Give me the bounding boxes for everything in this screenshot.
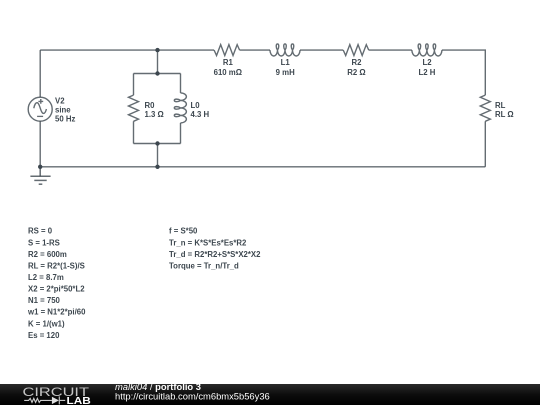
svg-text:L2 H: L2 H <box>419 68 436 77</box>
junction node ground <box>38 165 42 169</box>
wire L1 to R2 <box>300 49 343 51</box>
label R2 <box>347 58 365 77</box>
svg-text:V2: V2 <box>55 96 65 105</box>
svg-text:RS = 0: RS = 0 <box>28 227 53 236</box>
svg-text:RL = R2*(1-S)/S: RL = R2*(1-S)/S <box>28 261 85 270</box>
svg-text:R2 = 600m: R2 = 600m <box>28 250 67 259</box>
wire V2 bottom to ground node <box>39 121 41 167</box>
wire R1 to L1 <box>240 49 270 51</box>
wire R2 to L2 <box>369 49 412 51</box>
svg-text:50 Hz: 50 Hz <box>55 114 75 123</box>
svg-text:K = 1/(w1): K = 1/(w1) <box>28 319 65 328</box>
V2 minus sign <box>37 115 43 117</box>
label L2 <box>419 58 436 77</box>
svg-text:R2: R2 <box>352 58 363 67</box>
wire center stem top <box>157 50 159 73</box>
svg-text:S = 1-RS: S = 1-RS <box>28 238 60 247</box>
svg-text:X2 = 2*pi*50*L2: X2 = 2*pi*50*L2 <box>28 285 85 294</box>
svg-text:R2 Ω: R2 Ω <box>347 68 365 77</box>
equations left column <box>27 227 86 340</box>
label RL <box>495 101 514 119</box>
wire R0 bottom lead <box>133 121 135 143</box>
wire parallel block top rail <box>134 73 181 75</box>
resistor R0 <box>129 95 139 121</box>
resistor R1 <box>214 45 240 56</box>
logo diode triangle <box>52 397 59 404</box>
wire top bus left corner to R1 <box>40 49 214 51</box>
svg-text:L1: L1 <box>281 58 291 67</box>
svg-text:f = S*50: f = S*50 <box>169 227 198 236</box>
svg-text:Es = 120: Es = 120 <box>28 331 60 340</box>
wire L0 bottom lead <box>180 123 182 144</box>
junction node bottom bus center <box>155 165 159 169</box>
equations right column <box>169 227 261 271</box>
svg-text:LAB: LAB <box>67 396 91 405</box>
svg-text:sine: sine <box>55 105 71 114</box>
svg-text:L0: L0 <box>191 101 201 110</box>
svg-text:Tr_d = R2*R2+S*S*X2*X2: Tr_d = R2*R2+S*S*X2*X2 <box>169 250 261 259</box>
svg-text:http://circuitlab.com/cm6bmx5b: http://circuitlab.com/cm6bmx5b56y36 <box>115 391 270 402</box>
svg-text:RL: RL <box>495 101 506 110</box>
logo resistor zigzag and wire <box>24 396 65 404</box>
junction node block top <box>155 71 159 75</box>
svg-text:R1: R1 <box>223 58 234 67</box>
svg-text:RL Ω: RL Ω <box>495 110 514 119</box>
svg-text:1.3 Ω: 1.3 Ω <box>145 110 164 119</box>
junction node block bottom <box>155 141 159 145</box>
wire center stem bottom <box>157 144 159 167</box>
inductor L0 <box>174 93 186 123</box>
footer bar <box>0 384 540 405</box>
label L1 <box>276 58 295 77</box>
svg-text:L2: L2 <box>422 58 432 67</box>
junction node at top wire <box>155 48 159 52</box>
wire parallel block bottom rail <box>134 143 181 145</box>
label L0 <box>191 101 210 119</box>
svg-text:L2 = 8.7m: L2 = 8.7m <box>28 273 64 282</box>
svg-text:R0: R0 <box>145 101 156 110</box>
wire bottom bus <box>40 166 485 168</box>
svg-text:w1 = N1*2*pi/60: w1 = N1*2*pi/60 <box>27 308 86 317</box>
svg-text:Torque = Tr_n/Tr_d: Torque = Tr_n/Tr_d <box>169 261 239 270</box>
voltage source V2 circle <box>28 97 52 121</box>
wire L2 to top-right corner down to RL <box>442 50 485 95</box>
svg-text:9 mH: 9 mH <box>276 68 295 77</box>
wire L0 top lead <box>180 74 182 93</box>
svg-text:4.3 H: 4.3 H <box>191 110 210 119</box>
label V2 <box>55 96 75 123</box>
svg-text:610 mΩ: 610 mΩ <box>214 68 242 77</box>
label R0 <box>145 101 164 119</box>
resistor R2 <box>343 45 369 56</box>
wire R0 top lead <box>133 74 135 96</box>
ground symbol <box>30 167 50 184</box>
label R1 <box>214 58 242 77</box>
svg-text:Tr_n = K*S*Es*Es*R2: Tr_n = K*S*Es*Es*R2 <box>169 238 247 247</box>
inductor L2 <box>412 44 442 56</box>
V2 plus sign <box>38 99 43 104</box>
V2 sine wave <box>34 103 47 114</box>
svg-text:N1 = 750: N1 = 750 <box>28 296 61 305</box>
wire left: top corner to V2 top <box>39 50 41 97</box>
resistor RL <box>480 95 490 121</box>
wire RL bottom lead <box>484 121 486 167</box>
inductor L1 <box>270 44 300 56</box>
